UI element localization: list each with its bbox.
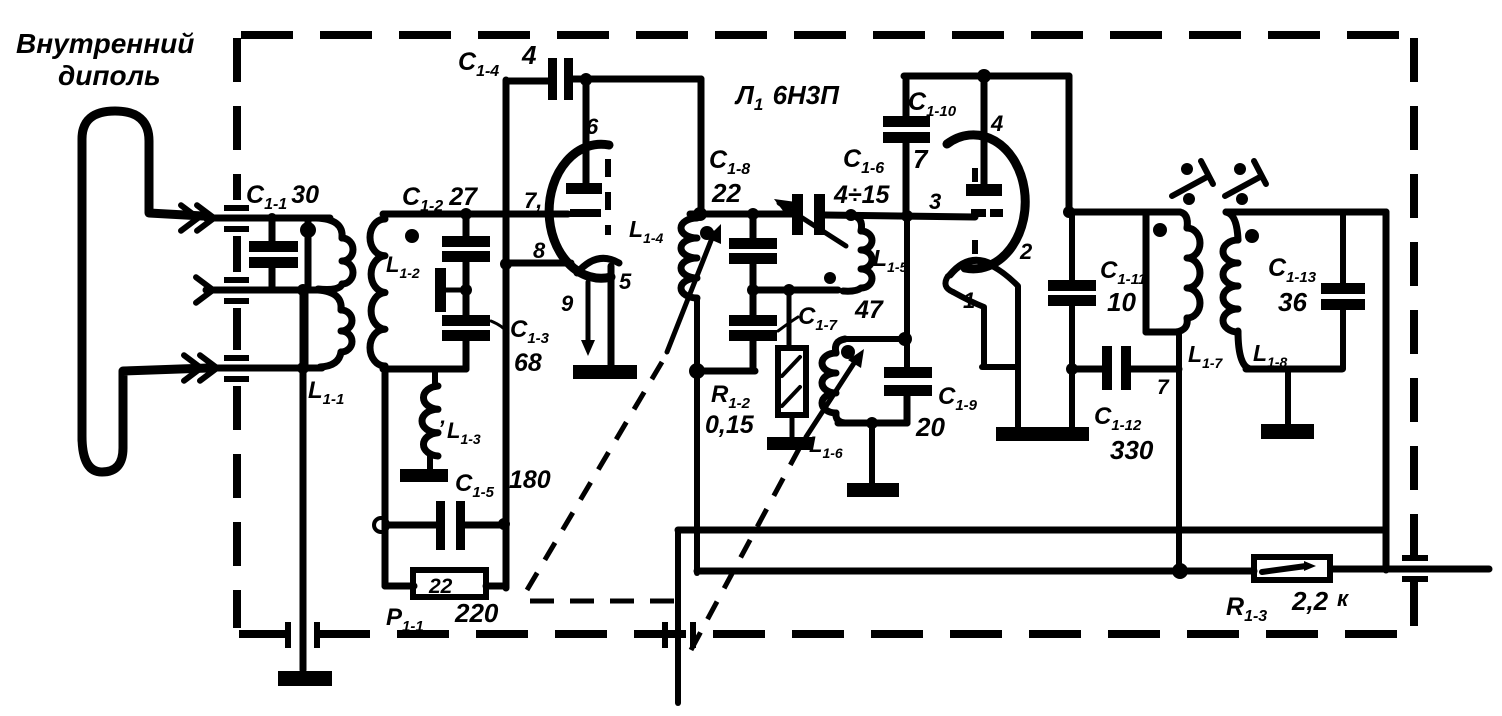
wire: L1-7 bottom drop — [1176, 332, 1182, 570]
label L1-5 — [873, 245, 908, 275]
svg-text:0,15: 0,15 — [705, 411, 755, 439]
enclosure dashed boundary (screen box) — [237, 35, 1414, 634]
pin label 3 — [929, 189, 941, 214]
label Л1 6Н3П — [734, 80, 840, 114]
label C1-2 27 — [402, 183, 478, 215]
label R1-2 0,15 — [705, 381, 755, 439]
capacitor C1-4 (feedback) — [506, 58, 701, 100]
ground symbol (L1-6) — [847, 483, 899, 497]
wire: lower feed line — [206, 365, 322, 372]
capacitor C1-10 — [883, 76, 930, 216]
wire: L1-4 bottom to buses — [694, 371, 700, 573]
resistor R1-1 — [413, 570, 506, 598]
wire: main row (right of C1-6) — [825, 209, 975, 222]
ground symbol (input) — [278, 671, 332, 686]
tuning arrow through L1-6 — [806, 349, 864, 437]
capacitor C1-9 — [884, 216, 932, 423]
wire: main row (center part) — [690, 207, 793, 221]
label R1-3 2,2k — [1226, 586, 1350, 625]
wire: L1-4 bottom row — [689, 363, 755, 379]
wire: upper bus (AGC rail) — [678, 527, 1386, 534]
wire: lower bus (output rail) — [697, 563, 1254, 579]
boundary pass-through ticks (right wire) — [1402, 555, 1428, 582]
label C1-3 68 — [510, 316, 550, 377]
svg-text:1: 1 — [963, 288, 975, 313]
wire: left column down to R1-1 — [385, 366, 414, 586]
svg-text:5: 5 — [619, 269, 632, 294]
capacitor C1-12 — [1066, 346, 1179, 390]
gang dashed link (left) — [527, 362, 680, 601]
wire: C1-8/C1-7 tap to L1-5 — [747, 284, 838, 296]
svg-text:6: 6 — [586, 114, 599, 139]
svg-text:7,: 7, — [524, 188, 542, 213]
svg-text:2: 2 — [1019, 239, 1033, 264]
svg-text:3: 3 — [929, 189, 941, 214]
wire: V1b plate top rail — [904, 69, 1069, 83]
feed arrow middle (single chevron) — [196, 277, 213, 303]
label L1-7 — [1188, 341, 1224, 371]
text label: Внутренний диполь — [16, 28, 194, 91]
pin label 1 — [963, 288, 975, 313]
capacitor C1-5 — [374, 501, 510, 550]
pin label 7 — [524, 188, 542, 213]
coil L1-7 — [1146, 212, 1200, 332]
internal dipole antenna (folded loop) — [82, 111, 208, 472]
pin label 8 — [533, 238, 546, 263]
label L1-4 — [629, 216, 664, 246]
pin label 2 — [1019, 239, 1033, 264]
wire: pin 8 lead — [506, 260, 571, 267]
capacitor C1-1 (plates + leads) — [249, 213, 298, 290]
svg-text:7: 7 — [1157, 376, 1170, 399]
ground symbol (cathode V1a) — [573, 365, 637, 379]
svg-text:20: 20 — [915, 412, 945, 442]
label C1-1 30 — [246, 181, 319, 213]
wire: tank to L1-7 — [1069, 209, 1146, 216]
trimmer plate bar of C1-2 — [435, 268, 472, 312]
label C1-4 4 — [458, 40, 537, 80]
pin label 7 (L1-7 bottom) — [1157, 376, 1170, 399]
coil L1-1 lower winding — [305, 290, 352, 367]
svg-text:9: 9 — [561, 291, 574, 316]
feed arrow lower (double chevron) — [184, 355, 217, 381]
svg-text:Внутренний: Внутренний — [16, 28, 194, 59]
svg-text:4: 4 — [990, 111, 1003, 136]
coil L1-6 (variable, cathode) — [822, 339, 905, 423]
svg-text:10: 10 — [1107, 287, 1136, 317]
adjustable core symbol (L1-7) — [1172, 161, 1213, 205]
wire: top rail down to tank — [1063, 76, 1075, 218]
capacitor C1-13 — [1321, 212, 1365, 369]
grid bar of first triode (pin 7) — [570, 209, 601, 217]
cathode of first triode (pin 5) — [577, 258, 619, 366]
ground symbol (L1-8) — [1261, 369, 1314, 439]
coil L1-2 (scalloped left edge) — [370, 219, 419, 366]
svg-text:22: 22 — [711, 178, 741, 208]
label C1-5 180 — [455, 466, 551, 501]
ground symbol (R1-2) — [767, 437, 813, 450]
label L1-1 — [308, 377, 344, 408]
label L1-6 — [809, 432, 843, 461]
resistor R1-2 — [778, 290, 806, 438]
wire: C1-9/L1-6 bottom — [838, 417, 907, 484]
capacitor C1-7 — [729, 315, 798, 371]
svg-text:к: к — [1337, 586, 1350, 611]
coil L1-1 upper winding — [300, 218, 353, 289]
capacitor C1-3 (in series) — [442, 315, 508, 369]
wire: middle-feed ground drop — [297, 284, 309, 670]
boundary pass-through ticks (left, upper) — [224, 205, 249, 232]
wire: main grid row (left part) — [383, 208, 568, 220]
pin 2 lead — [992, 266, 1018, 367]
resistor R1-3 — [1254, 557, 1330, 580]
pin 1 lead — [953, 292, 984, 367]
chassis bar under L1-3 — [400, 469, 448, 482]
boundary pass-through ticks (bottom, right wire) — [662, 622, 696, 648]
svg-text:2,2: 2,2 — [1291, 586, 1329, 616]
boundary pass-through ticks (bottom, left wire) — [285, 622, 320, 648]
pin label 6 — [586, 114, 599, 139]
coil L1-8 — [1223, 212, 1386, 369]
label C1-7 47 — [798, 296, 884, 334]
label C1-11 10 — [1100, 257, 1146, 317]
boundary pass-through ticks (left, lower) — [224, 355, 249, 382]
coil L1-4 (variable) — [681, 218, 714, 371]
wire: right column (C1-4 to R1-1) — [500, 80, 512, 588]
tube Л1 envelope (left half) — [549, 144, 611, 278]
tube half-partition dashed line (right) — [972, 168, 978, 254]
svg-text:7: 7 — [913, 144, 929, 174]
grid bar of second triode (pin 3) — [971, 209, 1003, 217]
cathode bottom join — [982, 367, 1018, 429]
svg-text:4: 4 — [521, 40, 537, 70]
svg-text:68: 68 — [514, 349, 542, 377]
wire: upper feed line — [206, 215, 330, 222]
cathode of second triode — [945, 260, 993, 292]
label L1-8 — [1253, 340, 1288, 370]
svg-text:22: 22 — [428, 575, 453, 598]
anode of second triode (pin 4) — [966, 77, 1002, 196]
wire: L1-2 bottom side — [383, 366, 466, 373]
capacitor C1-2 (in series) — [442, 214, 490, 317]
label L1-2 — [386, 252, 420, 281]
gang dashed link (right) — [691, 447, 800, 650]
pin 9 arrow to chassis — [581, 282, 595, 356]
label C1-8 22 — [709, 146, 750, 208]
svg-text:36: 36 — [1278, 287, 1307, 317]
ground bar (cathode + C1-11) — [996, 427, 1089, 441]
wire: middle feed line — [206, 287, 322, 294]
label C1-6 4/15 — [833, 145, 891, 209]
svg-text:180: 180 — [509, 466, 551, 494]
svg-text:’: ’ — [438, 416, 445, 441]
svg-text:4÷15: 4÷15 — [833, 181, 891, 209]
label C1-12 330 — [1094, 403, 1154, 465]
tube half-partition dashed line — [605, 159, 611, 235]
pin label 5 — [619, 269, 632, 294]
coil L1-3 (tap winding) — [422, 369, 438, 470]
boundary pass-through ticks (left, middle) — [224, 277, 249, 304]
pin label 9 — [561, 291, 574, 316]
capacitor C1-11 — [1048, 212, 1096, 428]
coil L1-5 — [824, 215, 872, 291]
svg-text:47: 47 — [854, 296, 884, 324]
svg-text:диполь: диполь — [58, 60, 161, 91]
anode of first triode (pin 6) — [566, 74, 602, 194]
wire: drop to chassis below box — [675, 530, 681, 703]
label C1-13 36 — [1268, 254, 1317, 317]
wire: plate to L1-4 top — [698, 79, 705, 214]
tuning arrow through L1-4 — [667, 224, 721, 352]
capacitor C1-8 — [729, 214, 777, 317]
label C1-10 7 — [908, 88, 957, 174]
label C1-9 20 — [915, 383, 978, 442]
svg-text:330: 330 — [1110, 435, 1154, 465]
pin label 4 — [990, 111, 1003, 136]
svg-text:Л1 6Н3П: Л1 6Н3П — [734, 80, 840, 114]
label R1-1 220 — [386, 598, 499, 635]
feed arrow upper (double chevron) — [181, 205, 214, 231]
wire: output right column — [1383, 212, 1390, 570]
tube Л1 envelope (right half) — [947, 135, 1025, 269]
label L1-3 — [438, 416, 481, 447]
svg-text:220: 220 — [454, 598, 499, 628]
adjustable core symbol (L1-8) — [1225, 161, 1266, 205]
wire: lower bus right of R1-3 — [1332, 566, 1489, 573]
wire: right column corner — [1383, 530, 1390, 569]
capacitor C1-6 (4-15 trimmer) — [774, 194, 846, 246]
svg-text:8: 8 — [533, 238, 546, 263]
